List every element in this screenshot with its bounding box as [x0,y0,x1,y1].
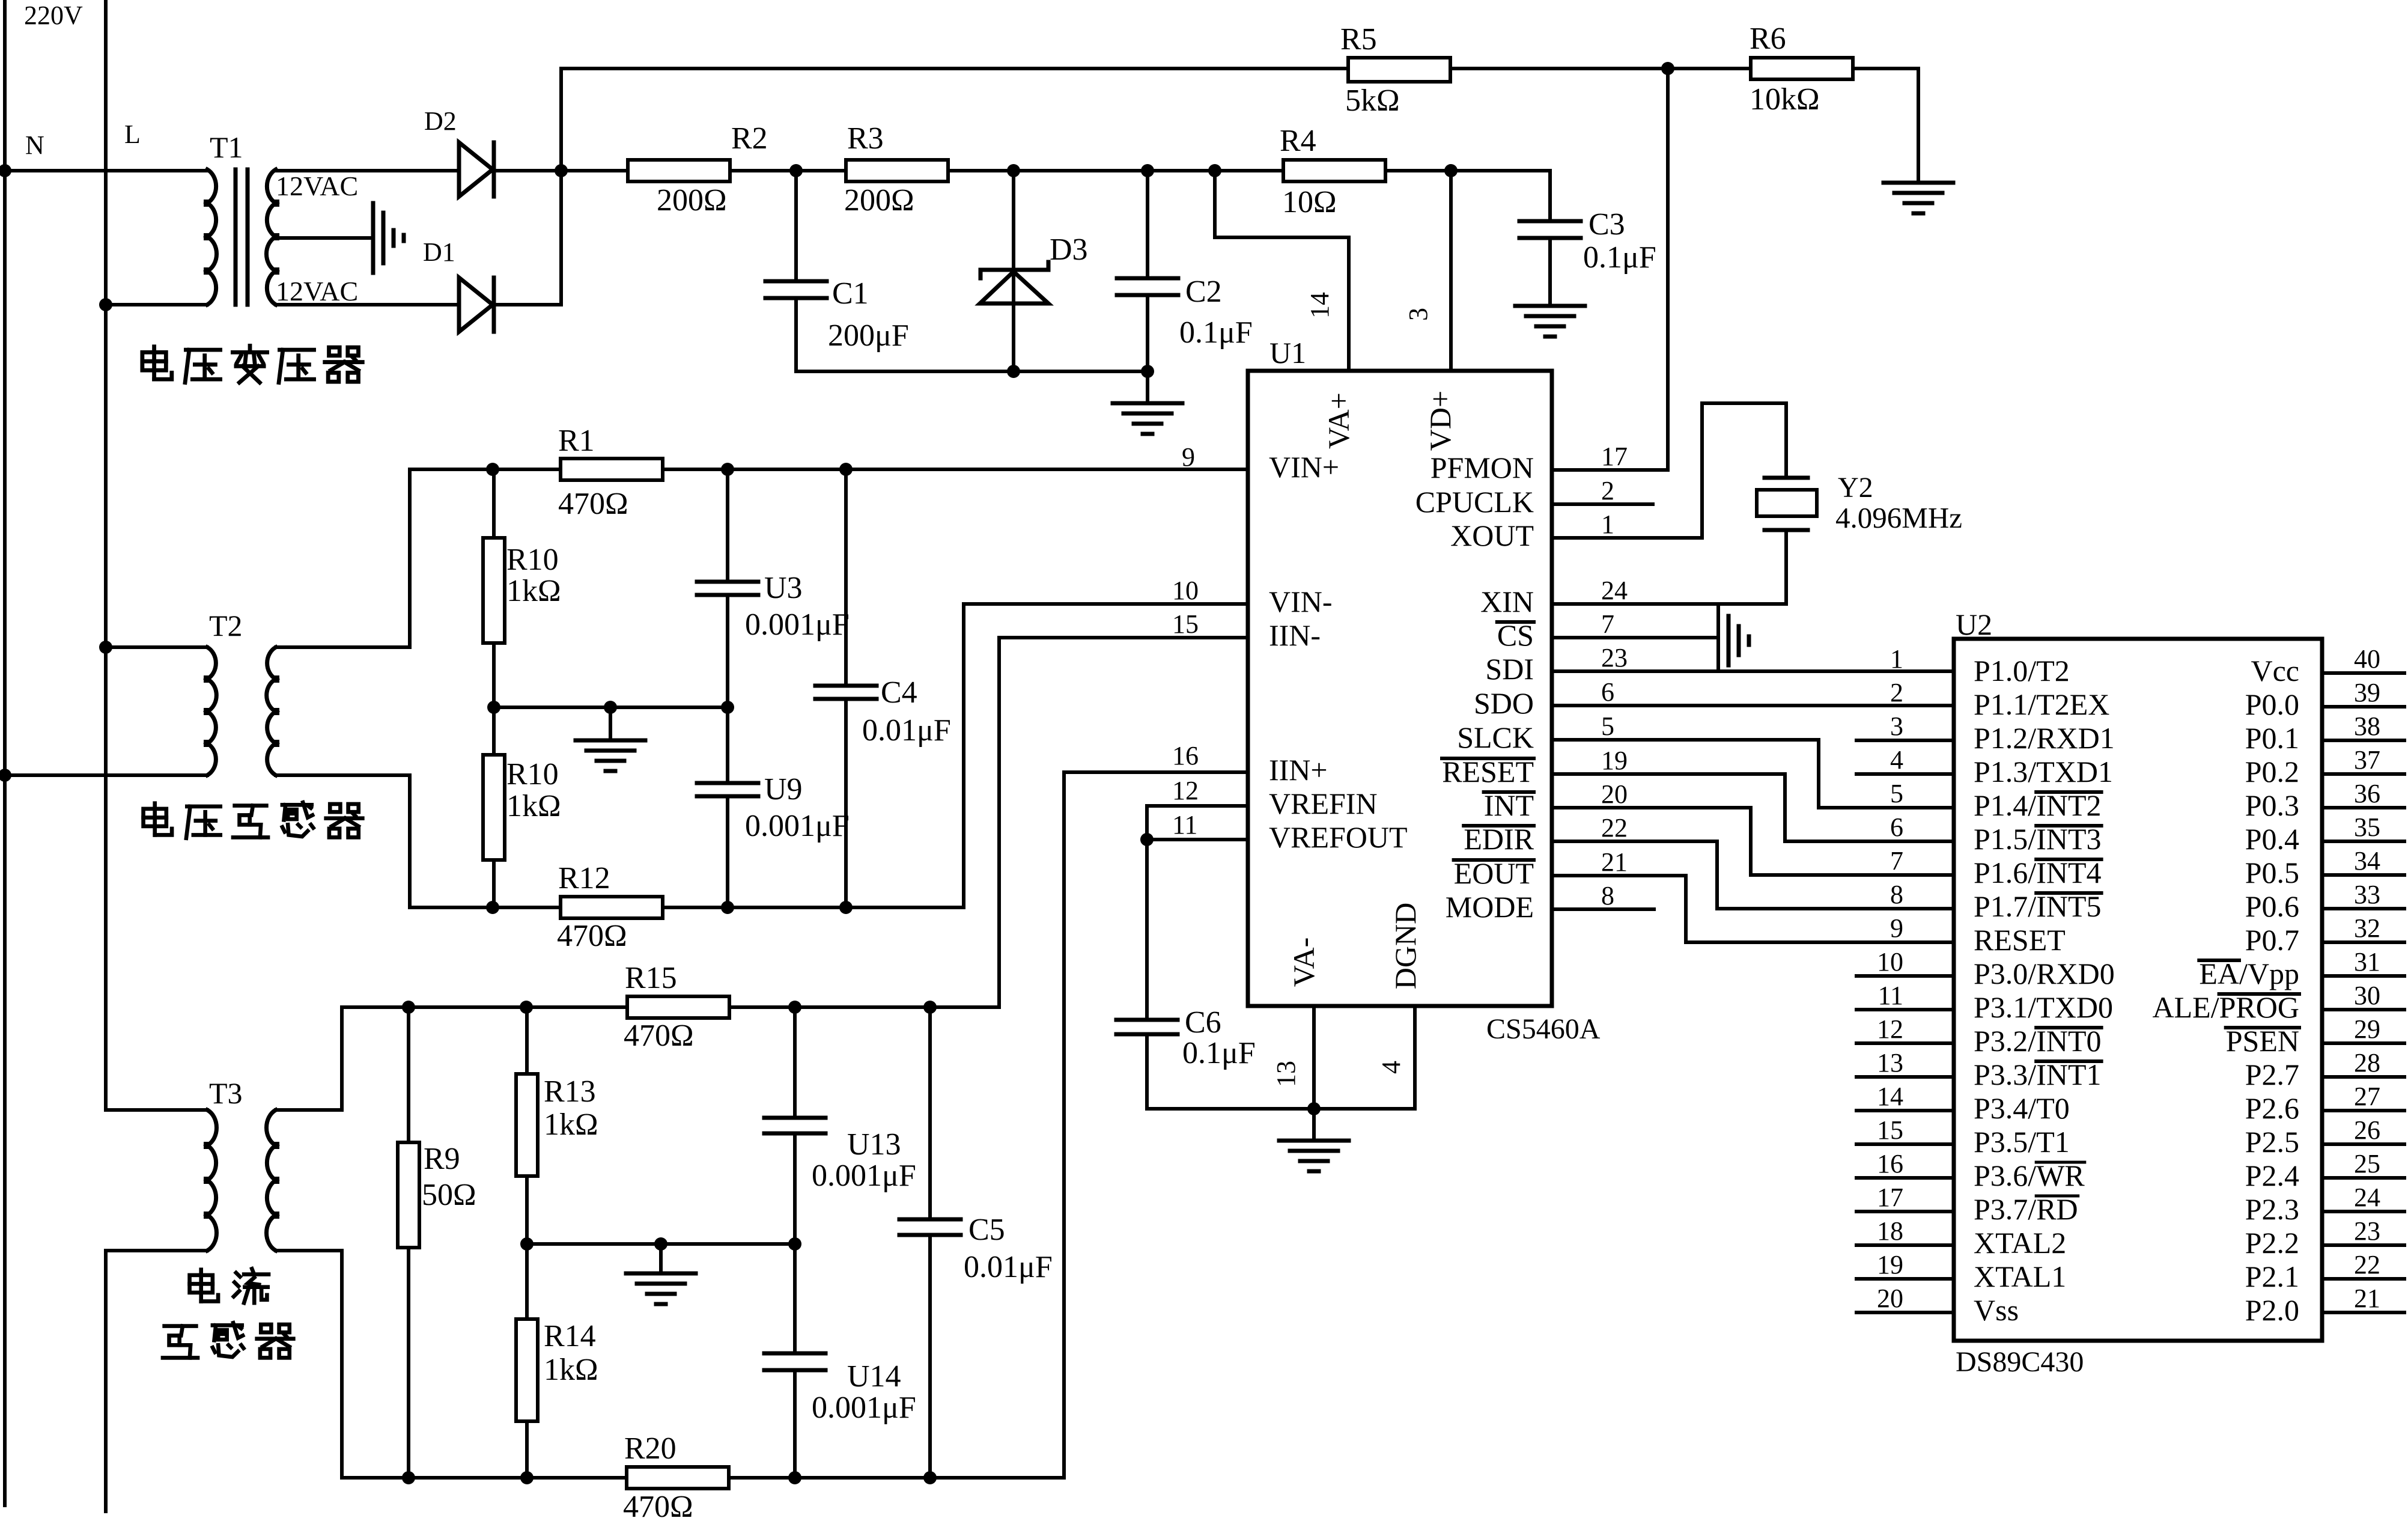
svg-text:24: 24 [2354,1183,2380,1212]
svg-text:1: 1 [1890,644,1903,674]
svg-text:10: 10 [1877,947,1903,977]
svg-text:0.001μF: 0.001μF [745,809,850,843]
svg-text:R5: R5 [1340,22,1377,56]
svg-text:P0.5: P0.5 [2245,856,2299,889]
svg-text:10: 10 [1172,576,1199,605]
svg-text:20: 20 [1601,779,1628,809]
svg-text:C1: C1 [832,276,869,311]
svg-text:P2.4: P2.4 [2245,1159,2299,1192]
svg-text:P3.0/RXD0: P3.0/RXD0 [1974,957,2115,990]
svg-text:P2.6: P2.6 [2245,1091,2299,1125]
svg-text:U2: U2 [1956,608,1992,641]
svg-text:P0.0: P0.0 [2245,687,2299,721]
svg-text:35: 35 [2354,812,2380,842]
svg-text:SDO: SDO [1474,686,1534,720]
svg-text:SLCK: SLCK [1457,721,1534,754]
svg-text:N: N [25,130,44,160]
svg-text:P0.7: P0.7 [2245,923,2299,957]
svg-text:P2.5: P2.5 [2245,1125,2299,1159]
svg-text:R10: R10 [506,757,559,791]
svg-text:27: 27 [2354,1082,2380,1111]
svg-text:R10: R10 [506,543,559,577]
svg-text:P0.6: P0.6 [2245,889,2299,923]
svg-text:0.1μF: 0.1μF [1182,1036,1256,1070]
svg-text:P3.5/T1: P3.5/T1 [1974,1125,2070,1159]
svg-text:200Ω: 200Ω [657,183,727,218]
svg-text:R2: R2 [731,121,768,156]
svg-text:U1: U1 [1269,336,1306,370]
svg-text:R1: R1 [558,424,595,458]
svg-text:U14: U14 [847,1359,901,1394]
svg-text:R3: R3 [847,121,884,156]
svg-text:P2.0: P2.0 [2245,1293,2299,1327]
svg-text:19: 19 [1601,746,1628,775]
svg-text:50Ω: 50Ω [422,1178,476,1212]
svg-text:12VAC: 12VAC [276,171,358,201]
svg-text:12VAC: 12VAC [276,276,358,306]
svg-text:7: 7 [1601,609,1614,639]
svg-text:CS5460A: CS5460A [1486,1013,1601,1045]
svg-text:3: 3 [1890,712,1903,741]
svg-text:0.001μF: 0.001μF [812,1391,916,1425]
svg-text:22: 22 [2354,1250,2380,1279]
svg-text:10kΩ: 10kΩ [1750,82,1820,117]
svg-text:T2: T2 [209,609,243,642]
svg-text:28: 28 [2354,1048,2380,1078]
svg-text:P0.2: P0.2 [2245,755,2299,788]
svg-text:470Ω: 470Ω [557,919,627,953]
svg-text:17: 17 [1601,442,1628,471]
svg-text:17: 17 [1877,1183,1903,1212]
svg-text:5: 5 [1890,779,1903,808]
svg-text:L: L [124,120,141,149]
svg-text:IIN-: IIN- [1269,618,1321,652]
svg-text:200μF: 200μF [828,319,909,353]
svg-text:4: 4 [1376,1061,1406,1074]
svg-text:26: 26 [2354,1115,2380,1145]
svg-text:9: 9 [1890,913,1903,943]
svg-text:XTAL2: XTAL2 [1974,1226,2066,1260]
svg-text:P0.1: P0.1 [2245,721,2299,755]
svg-text:16: 16 [1172,741,1199,770]
svg-text:P2.7: P2.7 [2245,1058,2299,1091]
svg-text:19: 19 [1877,1250,1903,1279]
svg-text:P2.3: P2.3 [2245,1192,2299,1226]
svg-text:XTAL1: XTAL1 [1974,1260,2066,1293]
svg-text:R4: R4 [1280,124,1316,158]
svg-text:16: 16 [1877,1149,1903,1178]
svg-text:P2.2: P2.2 [2245,1226,2299,1260]
svg-text:220V: 220V [24,1,83,30]
svg-text:P3.4/T0: P3.4/T0 [1974,1091,2070,1125]
svg-text:20: 20 [1877,1284,1903,1313]
svg-text:C3: C3 [1589,207,1625,242]
svg-text:14: 14 [1877,1082,1903,1111]
svg-text:0.01μF: 0.01μF [862,713,951,748]
svg-text:XIN: XIN [1480,585,1534,618]
svg-text:470Ω: 470Ω [624,1019,694,1053]
svg-text:2: 2 [1890,678,1903,707]
svg-text:T3: T3 [209,1076,243,1110]
svg-text:10Ω: 10Ω [1282,185,1337,219]
svg-text:24: 24 [1601,576,1628,605]
svg-text:VIN-: VIN- [1269,585,1333,618]
svg-text:VA-: VA- [1287,937,1321,987]
svg-text:9: 9 [1182,442,1195,472]
svg-text:21: 21 [1601,847,1628,877]
svg-text:R13: R13 [544,1074,596,1109]
svg-text:1kΩ: 1kΩ [544,1108,598,1142]
svg-text:DS89C430: DS89C430 [1956,1346,2084,1378]
svg-text:0.001μF: 0.001μF [812,1159,916,1193]
svg-text:4.096MHz: 4.096MHz [1835,501,1962,534]
svg-text:8: 8 [1890,880,1903,909]
svg-text:2: 2 [1601,476,1614,505]
svg-text:5: 5 [1601,712,1614,741]
svg-text:14: 14 [1305,292,1334,319]
svg-text:33: 33 [2354,880,2380,909]
svg-text:P0.4: P0.4 [2245,822,2299,856]
svg-text:21: 21 [2354,1284,2380,1313]
svg-text:P0.3: P0.3 [2245,788,2299,822]
svg-text:0.1μF: 0.1μF [1179,315,1253,350]
svg-text:IIN+: IIN+ [1269,753,1328,787]
svg-text:P2.1: P2.1 [2245,1260,2299,1293]
svg-text:C2: C2 [1185,275,1222,309]
svg-text:36: 36 [2354,779,2380,808]
svg-text:1kΩ: 1kΩ [544,1353,598,1387]
svg-text:Y2: Y2 [1838,472,1873,504]
svg-text:XOUT: XOUT [1450,519,1534,552]
svg-text:11: 11 [1878,981,1903,1010]
svg-text:32: 32 [2354,913,2380,943]
svg-text:P3.1/TXD0: P3.1/TXD0 [1974,990,2113,1024]
svg-text:470Ω: 470Ω [558,487,628,521]
svg-text:VD+: VD+ [1423,391,1457,451]
svg-text:R6: R6 [1750,22,1786,56]
svg-text:R20: R20 [624,1431,676,1466]
svg-text:22: 22 [1601,813,1628,843]
svg-text:P1.1/T2EX: P1.1/T2EX [1974,687,2109,721]
svg-text:1: 1 [1601,510,1614,539]
svg-text:23: 23 [2354,1216,2380,1246]
svg-text:D1: D1 [423,237,455,267]
svg-text:200Ω: 200Ω [844,183,914,218]
svg-text:39: 39 [2354,678,2380,707]
svg-text:12: 12 [1877,1014,1903,1044]
svg-text:5kΩ: 5kΩ [1345,84,1400,118]
svg-text:40: 40 [2354,644,2380,674]
svg-text:37: 37 [2354,745,2380,775]
svg-text:P1.0/T2: P1.0/T2 [1974,654,2070,687]
svg-text:P1.3/TXD1: P1.3/TXD1 [1974,755,2113,788]
svg-text:6: 6 [1601,677,1614,707]
svg-text:U13: U13 [847,1127,901,1162]
svg-text:6: 6 [1890,812,1903,842]
svg-text:4: 4 [1890,745,1903,775]
svg-text:15: 15 [1172,609,1199,639]
svg-text:18: 18 [1877,1216,1903,1246]
svg-text:U3: U3 [764,571,803,605]
svg-text:SDI: SDI [1485,652,1534,686]
svg-text:Vcc: Vcc [2251,654,2300,687]
svg-text:29: 29 [2354,1014,2380,1044]
svg-text:P1.2/RXD1: P1.2/RXD1 [1974,721,2115,755]
svg-text:R15: R15 [625,961,677,995]
svg-text:VIN+: VIN+ [1269,450,1339,484]
svg-text:13: 13 [1271,1061,1301,1087]
svg-text:DGND: DGND [1388,903,1422,989]
svg-text:RESET: RESET [1974,923,2066,957]
svg-text:D2: D2 [424,106,457,136]
svg-text:C4: C4 [881,675,917,710]
svg-text:8: 8 [1601,881,1614,910]
svg-text:0.1μF: 0.1μF [1583,240,1656,275]
svg-text:Vss: Vss [1974,1293,2019,1327]
svg-text:34: 34 [2354,846,2380,876]
svg-text:0.01μF: 0.01μF [964,1250,1053,1284]
svg-text:13: 13 [1877,1048,1903,1078]
svg-text:15: 15 [1877,1115,1903,1145]
svg-text:R12: R12 [558,861,610,895]
svg-text:25: 25 [2354,1149,2380,1178]
svg-text:MODE: MODE [1446,890,1534,924]
svg-text:CPUCLK: CPUCLK [1415,485,1534,519]
svg-text:3: 3 [1403,308,1433,321]
svg-text:U9: U9 [764,772,803,806]
svg-text:12: 12 [1172,776,1199,805]
svg-text:11: 11 [1172,810,1197,840]
svg-text:T1: T1 [210,130,243,164]
svg-text:D3: D3 [1050,233,1088,267]
svg-text:C5: C5 [968,1213,1005,1247]
svg-text:PFMON: PFMON [1431,451,1534,484]
svg-text:7: 7 [1890,846,1903,876]
svg-text:VA+: VA+ [1322,392,1355,449]
svg-text:31: 31 [2354,947,2380,977]
svg-text:0.001μF: 0.001μF [745,608,850,642]
svg-text:C6: C6 [1185,1005,1221,1040]
svg-text:1kΩ: 1kΩ [506,574,561,608]
svg-text:VREFIN: VREFIN [1269,787,1378,820]
svg-text:1kΩ: 1kΩ [506,789,561,823]
svg-text:30: 30 [2354,981,2380,1010]
svg-text:38: 38 [2354,712,2380,741]
svg-text:R9: R9 [424,1142,460,1176]
svg-text:470Ω: 470Ω [623,1490,693,1518]
svg-text:VREFOUT: VREFOUT [1269,820,1408,854]
svg-text:23: 23 [1601,643,1628,672]
svg-text:R14: R14 [544,1319,596,1353]
